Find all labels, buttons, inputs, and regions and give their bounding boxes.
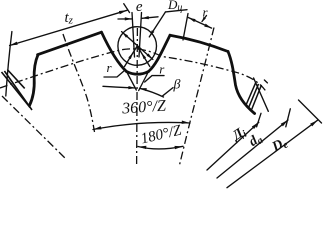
left gap seat line c (7, 70, 24, 89)
Дц diameter line (122, 32, 153, 60)
right tooth left flank (149, 35, 171, 71)
e extension line left (132, 13, 135, 58)
svg-text:360°/Z: 360°/Z (121, 97, 168, 117)
left r leader (104, 71, 125, 78)
roller seat arc (127, 72, 149, 75)
Дц leader line (149, 12, 165, 37)
left flank extension line (127, 72, 137, 91)
t_z extension tick left (6, 32, 12, 97)
right r leader (145, 76, 164, 82)
beta label leader (163, 88, 173, 96)
r dimension line (188, 18, 211, 29)
left gap radial center line (2, 96, 66, 159)
t_z dimension line (10, 10, 127, 45)
180/Z dimension arc (138, 146, 183, 149)
svg-text:e: e (136, 0, 143, 15)
right gap seat line c (252, 85, 262, 110)
beta angle arc right piece (140, 88, 164, 97)
da circle stub (286, 109, 291, 127)
t_z extension tick right (124, 4, 130, 13)
360/Z dimension arc (93, 122, 190, 129)
Di circle stub (257, 113, 261, 127)
right tooth right flank with root hook (228, 52, 255, 114)
Di dimension line (207, 122, 259, 170)
right gap seat line b (249, 84, 259, 108)
De circle stub (299, 100, 322, 123)
right tooth crown (170, 35, 228, 51)
left gap seat line b (4, 71, 32, 110)
right flank extension line (139, 72, 149, 91)
chain roller circle (118, 27, 157, 66)
left tooth crown (38, 32, 102, 55)
e dimension line left (118, 18, 132, 20)
r dim extension line (183, 14, 188, 41)
left tooth right flank into gap (102, 32, 127, 71)
e dimension line right (142, 17, 158, 19)
r label leader arrow (202, 16, 207, 22)
De dimension line (227, 120, 318, 188)
svg-text:β: β (173, 78, 181, 93)
pitch arc dash fragment (264, 80, 267, 83)
left tooth left flank (30, 55, 39, 106)
pitch circle arc (dash-dot) (0, 49, 267, 93)
gap vertical center line (136, 28, 139, 166)
right gap radial stub (254, 78, 269, 111)
beta angle arc left piece (103, 86, 135, 88)
right gap seat line a (246, 83, 256, 106)
beta line right (137, 46, 150, 67)
e extension line right (139, 13, 142, 58)
beta line left (125, 46, 138, 67)
da dimension line (217, 120, 288, 178)
left tooth center radial line (63, 34, 95, 132)
right radial center line (179, 28, 214, 168)
Дц leader underline (166, 10, 188, 12)
left gap seat line a (2, 72, 31, 108)
